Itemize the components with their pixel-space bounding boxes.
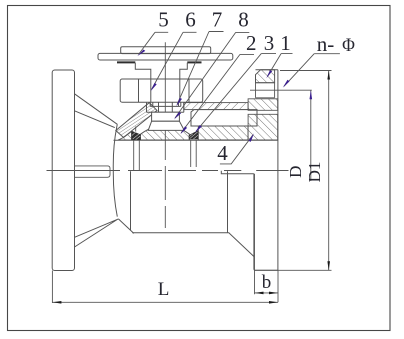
packing gland follower (part 8 zone) — [147, 102, 184, 112]
svg-text:8: 8 — [238, 8, 249, 32]
dimension D1 extension bottom — [255, 269, 332, 271]
handwheel lip right — [187, 61, 201, 63]
svg-text:4: 4 — [217, 141, 228, 165]
flange top edge — [256, 69, 278, 71]
right pipe hub bottom lines — [221, 171, 254, 270]
leader for part 5 — [139, 32, 169, 54]
right seat ring (crosshatched dark) — [189, 130, 199, 139]
body cap hatched wall left of seat — [118, 132, 132, 141]
svg-text:D1: D1 — [305, 162, 324, 183]
svg-text:6: 6 — [185, 8, 196, 32]
handwheel top plate (part 5 upper) — [121, 47, 211, 54]
left cone silhouette top — [75, 94, 118, 128]
leader for part 3 — [196, 54, 276, 132]
leader for part 2 — [181, 54, 254, 132]
right body end hatched (flange piece) — [248, 99, 278, 111]
left seat ring (crosshatched dark) — [132, 131, 141, 140]
horizontal pipe centerline — [47, 170, 289, 172]
body hatched band right of seat — [198, 126, 248, 140]
stem (part 7 zone) — [153, 102, 179, 112]
svg-text:D: D — [286, 166, 305, 178]
left flange plate — [52, 70, 74, 271]
handwheel lip left — [117, 61, 135, 63]
svg-text:7: 7 — [212, 8, 223, 32]
stem hat flange — [135, 63, 187, 79]
left cone silhouette bottom — [75, 219, 119, 247]
leader for part 6 — [152, 32, 197, 89]
dimension line D1 — [328, 71, 330, 271]
flange top block hatched (part 1) — [256, 70, 275, 83]
leader for part 7 — [177, 32, 224, 105]
bonnet neck hatched band — [116, 103, 157, 138]
flange right face — [277, 70, 279, 271]
leader for part 8 — [175, 32, 249, 118]
gland nut facet lines — [139, 79, 190, 102]
left hub to body cone bottom — [118, 219, 133, 234]
body exterior below centerline — [131, 171, 254, 256]
left hub cap curve — [113, 124, 117, 216]
svg-text:1: 1 — [280, 31, 291, 55]
vertical stem centerline — [164, 42, 166, 228]
ball upper hatched section (part 2 zone) — [141, 125, 190, 140]
svg-text:n-: n- — [317, 32, 335, 56]
bonnet plate hatched band — [184, 103, 248, 110]
handwheel bar (part 5) — [98, 53, 233, 60]
gland nut (part 6) — [120, 79, 203, 102]
bore top line — [114, 139, 278, 141]
bolt hole lines in flange — [256, 83, 275, 98]
left flange bolt slot — [75, 166, 111, 177]
svg-text:Φ: Φ — [342, 34, 355, 55]
right flange bottom edge — [254, 269, 278, 271]
dimension line D — [310, 90, 312, 181]
bolt hole centerline n-phi — [250, 89, 312, 91]
svg-text:3: 3 — [264, 31, 275, 55]
svg-text:L: L — [158, 279, 170, 300]
dimension line L — [52, 271, 278, 304]
seat groove wall line — [135, 127, 137, 132]
stem cone flare — [148, 121, 184, 130]
dimension D1 extension top — [280, 70, 332, 72]
svg-text:b: b — [262, 272, 272, 293]
packing box — [152, 112, 180, 121]
svg-text:5: 5 — [158, 8, 169, 32]
leader for part 1 — [267, 54, 292, 77]
leader for part 4 — [220, 135, 253, 164]
dimension line b — [255, 174, 279, 302]
seat ring edges below bore — [134, 140, 197, 170]
svg-text:2: 2 — [246, 31, 257, 55]
seat retainer insert (part 4 zone) — [191, 110, 257, 126]
leader for n-phi bolt holes — [284, 54, 340, 87]
